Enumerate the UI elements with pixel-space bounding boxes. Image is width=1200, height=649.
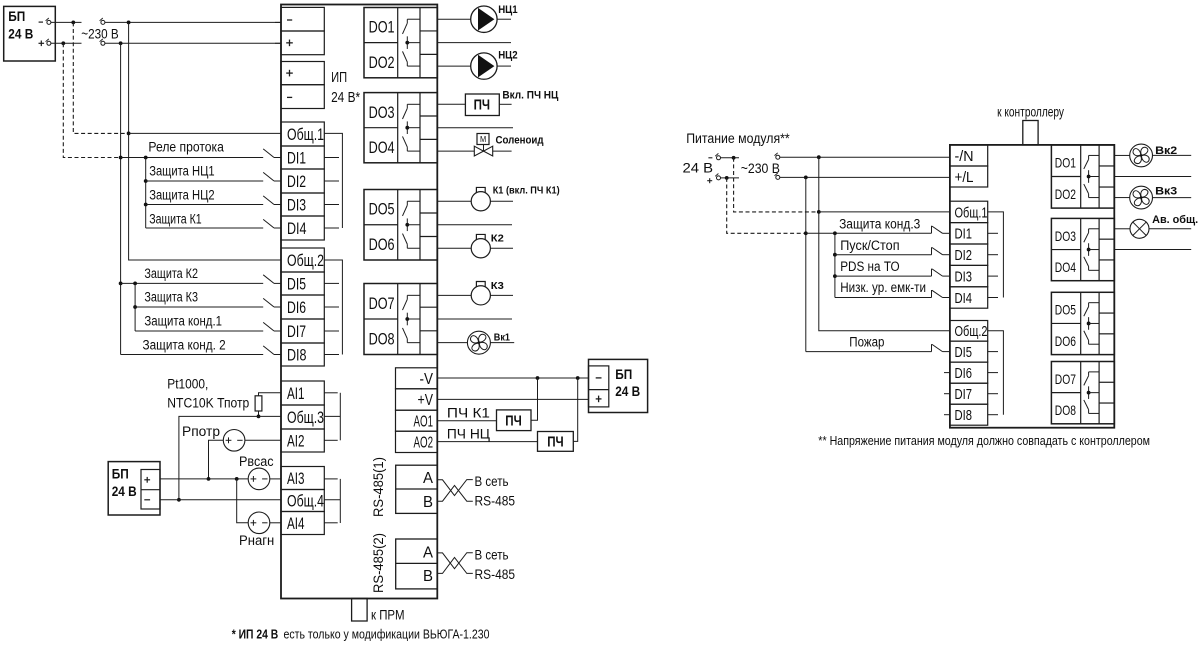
twisted pair RS-485(1) wire B bbox=[437, 485, 473, 501]
svg-text:Pt1000,: Pt1000, bbox=[167, 377, 208, 392]
svg-text:Защита К1: Защита К1 bbox=[149, 212, 202, 227]
svg-text:DI6: DI6 bbox=[955, 366, 973, 382]
junction dot DI3 bbox=[144, 203, 148, 207]
svg-text:DI1: DI1 bbox=[287, 149, 306, 168]
wire DO5 to contactor K1 bbox=[437, 200, 471, 202]
svg-text:Общ.2: Общ.2 bbox=[955, 324, 988, 340]
svg-text:к ПРМ: к ПРМ bbox=[371, 608, 405, 623]
svg-text:DO7: DO7 bbox=[1055, 371, 1076, 387]
svg-text:DO5: DO5 bbox=[1055, 302, 1076, 318]
svg-text:DI1: DI1 bbox=[955, 227, 973, 243]
contactor coil K3 bbox=[471, 286, 490, 305]
svg-text:к контроллеру: к контроллеру bbox=[997, 104, 1064, 119]
wire PCh K1 to -V bbox=[531, 378, 538, 420]
terminal DI5 right bbox=[950, 341, 988, 362]
frequency drive box PCh top bbox=[465, 94, 499, 116]
relay block DO7-DO8 box bbox=[364, 284, 437, 355]
svg-text:DO1: DO1 bbox=[369, 19, 395, 37]
switch contact DI2 right bbox=[931, 247, 933, 255]
wire 230V L to controller plus terminal bbox=[105, 42, 281, 44]
switch contact DI1 right bbox=[931, 226, 933, 234]
junction dot L right bbox=[804, 176, 808, 180]
pressure sensor Rpotr bbox=[223, 430, 245, 452]
svg-text:A: A bbox=[423, 470, 434, 487]
wire DO5-DO6 common bbox=[437, 224, 512, 226]
BP1 minus sign bbox=[39, 21, 43, 23]
terminal DI4 bbox=[281, 216, 324, 240]
pressure sensor Rnagn bbox=[248, 512, 270, 534]
svg-text:DO4: DO4 bbox=[369, 139, 395, 157]
svg-text:Рпотр: Рпотр bbox=[182, 424, 220, 439]
svg-text:БП: БП bbox=[615, 367, 632, 382]
RS-485(2) terminal block bbox=[396, 539, 438, 589]
vertical bus L to DI1 DI5 right bbox=[805, 177, 807, 351]
svg-text:* ИП 24 В: * ИП 24 В bbox=[232, 627, 279, 641]
svg-text:ПЧ: ПЧ bbox=[505, 414, 522, 430]
power supply BP3 24V box bbox=[589, 359, 648, 412]
svg-text:Вк1: Вк1 bbox=[494, 331, 510, 343]
alarm lamp Av obshch bbox=[1130, 219, 1149, 238]
svg-text:Питание модуля**: Питание модуля** bbox=[686, 131, 790, 146]
svg-text:ПЧ НЦ: ПЧ НЦ bbox=[447, 426, 490, 441]
twisted pair RS-485(1) wire A bbox=[437, 480, 473, 496]
wire Rnagn to AI4 bbox=[270, 522, 281, 524]
inner bracket Obshch.1-DI4 right bbox=[988, 212, 1004, 298]
svg-text:М: М bbox=[480, 134, 486, 144]
24V minus sign right bbox=[708, 157, 712, 159]
junction dot DI2-DI4 bus start bbox=[144, 156, 148, 160]
svg-text:RS-485: RS-485 bbox=[475, 567, 516, 582]
svg-text:DI8: DI8 bbox=[955, 408, 973, 424]
svg-text:В сеть: В сеть bbox=[475, 474, 509, 489]
wire DI4 Zashchita K1 bbox=[146, 227, 264, 229]
24V minus terminal circle right bbox=[717, 156, 721, 160]
24V plus sign right bbox=[707, 180, 712, 182]
wire DO2 to pump NC2 bbox=[437, 65, 470, 67]
wire DO7 to contactor K3 bbox=[437, 294, 471, 296]
wire DI1 Rele protoka bbox=[121, 157, 264, 159]
svg-text:К1 (вкл. ПЧ К1): К1 (вкл. ПЧ К1) bbox=[493, 184, 560, 196]
switch contact DI4 bbox=[263, 219, 274, 228]
switch contact DI5 right bbox=[931, 344, 933, 352]
svg-text:БП: БП bbox=[112, 466, 129, 481]
junction dot minus wire bbox=[177, 498, 181, 502]
junction dot DI2 right bbox=[833, 253, 837, 257]
BP1 plus terminal circle bbox=[47, 41, 51, 45]
terminal Obshch.1 right bbox=[950, 201, 988, 222]
wire resistor to Obshch.3 bbox=[258, 411, 260, 416]
switch contact DI1 bbox=[263, 149, 274, 158]
svg-text:NTC10K Тпотр: NTC10K Тпотр bbox=[167, 396, 249, 411]
junction dot 24V minus bbox=[732, 156, 736, 160]
svg-text:есть только у модификации ВЬЮГ: есть только у модификации ВЬЮГА-1.230 bbox=[284, 627, 490, 641]
terminal Obshch.1 bbox=[281, 122, 324, 146]
terminal DI2 bbox=[281, 169, 324, 193]
relay contacts DO7/DO8 right bbox=[1089, 371, 1100, 373]
svg-text:AI3: AI3 bbox=[287, 469, 305, 488]
wire PCh box right bbox=[499, 103, 511, 105]
k PRM stub box bbox=[352, 599, 368, 622]
relay contacts DO3/DO4 right bbox=[1089, 228, 1100, 230]
svg-text:Ав. общ.: Ав. общ. bbox=[1152, 214, 1198, 226]
terminal AO2 bbox=[396, 431, 438, 452]
twisted pair RS-485(2) wire B bbox=[437, 558, 473, 574]
svg-text:DO6: DO6 bbox=[369, 236, 395, 254]
wire Obshch.1 into terminal bbox=[129, 132, 281, 134]
svg-text:DO2: DO2 bbox=[369, 54, 395, 72]
wire minus BP2 to Obshch.4 bbox=[160, 499, 281, 501]
svg-text:Защита конд. 2: Защита конд. 2 bbox=[143, 337, 226, 352]
wire DO1 to pump NC1 bbox=[437, 18, 470, 20]
fan Vk2 bbox=[1130, 144, 1153, 167]
BP2 terminal cells bbox=[141, 470, 160, 510]
svg-text:DI3: DI3 bbox=[287, 196, 306, 215]
wire DO7-DO8 common bbox=[437, 318, 512, 320]
twisted pair RS-485(2) wire A bbox=[437, 553, 473, 569]
wire pump NC1 right bbox=[497, 18, 511, 20]
svg-text:Вкл. ПЧ НЦ: Вкл. ПЧ НЦ bbox=[502, 90, 558, 102]
svg-text:ИП: ИП bbox=[331, 69, 347, 86]
inner bracket group AI3-AI4 bbox=[324, 499, 340, 501]
terminal DI1 bbox=[281, 146, 324, 169]
BP1 plus sign bbox=[39, 42, 45, 44]
BP2 minus sign bbox=[144, 499, 150, 501]
wire 230V N to controller minus terminal bbox=[105, 21, 281, 23]
svg-text:A: A bbox=[423, 544, 434, 561]
svg-text:AI1: AI1 bbox=[287, 384, 305, 403]
wire Vk3 right bbox=[1153, 197, 1192, 199]
svg-text:Рнагн: Рнагн bbox=[239, 533, 274, 548]
svg-text:PDS на ТО: PDS на ТО bbox=[840, 259, 899, 274]
terminal DI3 bbox=[281, 193, 324, 216]
svg-text:DI6: DI6 bbox=[287, 298, 306, 317]
relay block DO1-DO2 right box bbox=[1051, 145, 1114, 208]
wire DO3-DO4 common bbox=[437, 127, 513, 129]
junction dot DI2 bbox=[144, 179, 148, 183]
frequency drive box PCh NC bbox=[538, 432, 574, 452]
inner bracket group Obshch.2-DI8 bbox=[324, 260, 342, 355]
terminal DI1 right bbox=[950, 223, 988, 244]
terminal Obshch.2 bbox=[281, 248, 324, 272]
svg-text:RS-485(2): RS-485(2) bbox=[371, 533, 386, 593]
svg-text:Защита К2: Защита К2 bbox=[144, 266, 198, 281]
dashed alternative wire BP1 plus to DI bus bbox=[63, 43, 118, 157]
relay contacts DO3/DO4 bbox=[407, 103, 420, 105]
svg-text:DI5: DI5 bbox=[287, 275, 306, 294]
controller main block outline bbox=[281, 5, 437, 599]
terminal DI6 bbox=[281, 295, 324, 319]
svg-text:** Напряжение питания модуля д: ** Напряжение питания модуля должно совп… bbox=[818, 434, 1150, 448]
relay block DO7-DO8 right box bbox=[1051, 362, 1114, 424]
svg-text:AO2: AO2 bbox=[414, 434, 434, 451]
terminal DI2 right bbox=[950, 244, 988, 265]
wire DO8 to fan Vk1 bbox=[437, 342, 467, 344]
switch contact DI3 bbox=[263, 196, 274, 205]
svg-text:ПЧ К1: ПЧ К1 bbox=[447, 405, 490, 420]
svg-text:Общ.3: Общ.3 bbox=[287, 408, 324, 427]
wire DO2 right to fan Vk3 bbox=[1114, 197, 1129, 199]
svg-text:~230 В: ~230 В bbox=[741, 161, 780, 176]
junction dot plus dashed tap bbox=[61, 41, 65, 45]
svg-text:Пуск/Стоп: Пуск/Стоп bbox=[840, 238, 899, 253]
terminal AI4 bbox=[281, 512, 324, 535]
svg-text:DI4: DI4 bbox=[287, 219, 307, 238]
switch contact DI4 right bbox=[931, 290, 933, 298]
svg-text:24 В: 24 В bbox=[683, 161, 714, 176]
svg-text:DO3: DO3 bbox=[369, 104, 395, 122]
bus DI2-DI4 bbox=[145, 158, 147, 229]
terminal DI8 bbox=[281, 343, 324, 366]
svg-text:Общ.1: Общ.1 bbox=[955, 205, 988, 221]
relay block DO5-DO6 box bbox=[364, 190, 437, 261]
wire -V to BP3 bbox=[437, 377, 588, 379]
junction dot minus dashed tap bbox=[71, 21, 75, 25]
terminal minus 230V bbox=[281, 7, 324, 31]
BP3 terminal cells bbox=[589, 366, 609, 407]
bus DI2-DI4 right bbox=[834, 233, 836, 297]
resistor Tpotr bbox=[255, 396, 262, 411]
wire DO1-DO2 common bbox=[437, 42, 511, 44]
wire BP1 plus to junction bbox=[51, 42, 82, 44]
contactor coil K2 bbox=[471, 239, 490, 258]
svg-text:24 В*: 24 В* bbox=[331, 89, 360, 106]
wire DI2 Pusk/Stop bbox=[835, 254, 932, 256]
wire DI5 Pozhar bbox=[806, 351, 932, 353]
svg-text:-V: -V bbox=[420, 371, 434, 388]
junction dot N vertical bbox=[127, 21, 131, 25]
svg-text:DI4: DI4 bbox=[955, 291, 973, 307]
switch contact DI8 bbox=[263, 346, 274, 355]
wire DI5 Zashchita K2 bbox=[121, 282, 264, 284]
terminal -/N bbox=[950, 145, 988, 166]
junction dot Obshch.3 bbox=[257, 415, 261, 419]
RS-485(1) terminal block bbox=[396, 465, 438, 513]
wire K2 right bbox=[490, 247, 513, 249]
svg-text:DO2: DO2 bbox=[1055, 186, 1076, 202]
wire K3 right bbox=[490, 294, 513, 296]
wire +V to BP3 bbox=[437, 398, 588, 400]
wire plus bus BP2 to Rvsas bbox=[160, 478, 248, 480]
svg-text:Пожар: Пожар bbox=[849, 335, 884, 350]
svg-text:DO4: DO4 bbox=[1055, 259, 1076, 275]
mains 230V plus terminal circle bbox=[101, 41, 105, 45]
terminal Obshch.3 bbox=[281, 405, 324, 429]
svg-text:DI3: DI3 bbox=[955, 270, 973, 286]
wire lamp right bbox=[1149, 228, 1191, 230]
switch contact DI7 bbox=[263, 322, 274, 331]
wire 24V plus right bbox=[721, 177, 740, 179]
svg-text:DO5: DO5 bbox=[369, 201, 395, 219]
svg-text:~230 В: ~230 В bbox=[81, 26, 118, 41]
wire AO1 to PCh K1 box bbox=[437, 420, 496, 422]
relay contacts DO1/DO2 bbox=[407, 18, 420, 20]
svg-text:Общ.2: Общ.2 bbox=[287, 251, 324, 270]
wire Obshch.3 left branch bbox=[179, 416, 281, 499]
wire Vk1 right bbox=[490, 342, 514, 344]
terminal AI1 bbox=[281, 381, 324, 405]
wire Rpotr to AI2 bbox=[245, 439, 281, 441]
terminal DI7 bbox=[281, 319, 324, 343]
BP3 minus sign bbox=[596, 377, 602, 379]
svg-text:Общ.4: Общ.4 bbox=[287, 492, 324, 511]
wire DO6 to contactor K2 bbox=[437, 247, 471, 249]
relay block DO3-DO4 right box bbox=[1051, 218, 1114, 280]
inner bracket group Obshch.1-DI4 bbox=[324, 133, 342, 228]
pressure sensor Rvsas bbox=[248, 468, 270, 490]
terminal IP minus bbox=[281, 85, 324, 109]
svg-text:DO1: DO1 bbox=[1055, 155, 1076, 171]
wire DO4 to solenoid bbox=[437, 150, 474, 152]
dashed alternative wire BP1 minus to Obshch.1 bbox=[73, 22, 126, 133]
terminal plus 230V bbox=[281, 31, 324, 55]
vertical bus L to DI1 DI5 DI8 bbox=[120, 43, 122, 354]
svg-text:-/N: -/N bbox=[955, 149, 974, 165]
svg-text:Вк3: Вк3 bbox=[1155, 185, 1177, 197]
junction dot Rnagn tap bbox=[235, 477, 239, 481]
svg-text:Защита К3: Защита К3 bbox=[144, 290, 198, 305]
terminal IP plus bbox=[281, 62, 324, 85]
svg-text:НЦ2: НЦ2 bbox=[498, 50, 517, 62]
solenoid valve body bbox=[474, 146, 483, 156]
wire PCh NC to -V bbox=[573, 378, 577, 441]
wire DI8 Zashchita kond.2 bbox=[121, 354, 264, 356]
svg-text:24 В: 24 В bbox=[615, 384, 640, 399]
terminal Obshch.2 right bbox=[950, 321, 988, 342]
junction dot Rpotr tap bbox=[207, 477, 211, 481]
wire DO1 right to fan Vk2 bbox=[1114, 154, 1129, 156]
svg-text:AI4: AI4 bbox=[287, 514, 305, 533]
k kontrolleru stub box bbox=[1023, 121, 1038, 145]
svg-text:Защита конд.1: Защита конд.1 bbox=[144, 314, 222, 329]
svg-text:ПЧ: ПЧ bbox=[474, 98, 491, 114]
left stub DI8 right module bbox=[944, 414, 950, 416]
inner bracket group AI1-AI2 bbox=[324, 415, 340, 417]
svg-text:Низк. ур. емк-ти: Низк. ур. емк-ти bbox=[840, 280, 926, 295]
wire DI4 Nizk ur emk-ti bbox=[835, 297, 932, 299]
wire AO2 to PCh NC box bbox=[437, 441, 537, 443]
svg-text:+V: +V bbox=[418, 392, 434, 409]
terminal -V bbox=[396, 368, 438, 389]
BP1 minus terminal circle bbox=[47, 20, 51, 24]
junction dot L vertical bbox=[119, 41, 123, 45]
svg-text:24 В: 24 В bbox=[112, 484, 137, 499]
left stub DI7 right module bbox=[944, 393, 950, 395]
vertical wire N to Obshch.1 Obshch.2 right bbox=[819, 157, 950, 331]
24V plus terminal circle right bbox=[717, 176, 721, 180]
relay contacts DO1/DO2 right bbox=[1089, 154, 1100, 156]
terminal Obshch.4 bbox=[281, 490, 324, 512]
junction dot 24V plus bbox=[725, 176, 729, 180]
wire DI3 PDS na TO bbox=[835, 275, 932, 277]
wire 24V minus right bbox=[721, 157, 740, 159]
terminal DI4 right bbox=[950, 287, 988, 308]
wire tap down to Rnagn bbox=[237, 479, 249, 523]
wire DI2 Zashchita NC1 bbox=[146, 180, 264, 182]
switch contact DI2 bbox=[263, 172, 274, 181]
svg-text:DO6: DO6 bbox=[1055, 333, 1076, 349]
wire Rvsas to AI3 bbox=[270, 478, 281, 480]
wire N to module bbox=[780, 156, 950, 158]
junction dot DI6-DI7 bus start bbox=[133, 282, 137, 286]
pump NC2 bbox=[471, 53, 497, 79]
svg-text:Защита конд.3: Защита конд.3 bbox=[839, 216, 920, 231]
svg-text:Защита НЦ2: Защита НЦ2 bbox=[149, 188, 214, 203]
terminal DI6 right bbox=[950, 362, 988, 383]
power supply BP1 24V box bbox=[4, 6, 56, 61]
svg-text:Защита НЦ1: Защита НЦ1 bbox=[149, 164, 214, 179]
relay contacts DO7/DO8 bbox=[407, 294, 420, 296]
BP2 plus sign bbox=[144, 479, 150, 481]
terminal AI3 bbox=[281, 467, 324, 490]
left stub terminal plus bbox=[275, 42, 281, 44]
vertical wire N to Obshch.1 and Obshch.2 bbox=[129, 22, 281, 260]
wire Rpotr to plus bus bbox=[209, 440, 224, 479]
wire DO1-DO2 common right bbox=[1114, 176, 1191, 178]
svg-text:DI2: DI2 bbox=[287, 172, 306, 191]
junction dot N right bbox=[817, 155, 821, 159]
frequency drive box PCh K1 bbox=[497, 410, 532, 431]
switch contact DI3 right bbox=[931, 269, 933, 277]
mains L terminal circle right bbox=[776, 175, 780, 179]
svg-text:DI8: DI8 bbox=[287, 346, 307, 365]
left stub DI6 right module bbox=[944, 372, 950, 374]
BP3 plus sign bbox=[596, 398, 602, 400]
junction dot at Obshch.1 bbox=[127, 132, 131, 136]
wire solenoid right bbox=[493, 150, 512, 152]
fan Vk3 bbox=[1130, 186, 1153, 209]
wire Vk2 right bbox=[1153, 154, 1192, 156]
junction dot PCh2 return bbox=[576, 376, 580, 380]
dashed wire 24V plus to DI1 right bbox=[727, 178, 804, 233]
pump NC1 bbox=[471, 6, 497, 32]
wire K1 right bbox=[490, 200, 513, 202]
svg-text:Общ.1: Общ.1 bbox=[287, 125, 324, 144]
svg-text:DO3: DO3 bbox=[1055, 228, 1076, 244]
terminal AO1 bbox=[396, 410, 438, 431]
wire Obshch.1 right into terminal bbox=[819, 211, 950, 213]
terminal DI7 right bbox=[950, 383, 988, 404]
relay block DO5-DO6 right box bbox=[1051, 292, 1114, 354]
wire pump NC2 right bbox=[497, 65, 511, 67]
svg-text:DI7: DI7 bbox=[287, 322, 306, 341]
solenoid valve M box bbox=[477, 134, 489, 145]
svg-text:DO7: DO7 bbox=[369, 295, 395, 313]
svg-text:DO8: DO8 bbox=[1055, 402, 1076, 418]
wire DI6 Zashchita K3 bbox=[135, 306, 263, 308]
svg-text:Реле протока: Реле протока bbox=[148, 140, 224, 155]
svg-text:ПЧ: ПЧ bbox=[547, 435, 564, 451]
wire DO3 right to lamp bbox=[1114, 228, 1130, 230]
svg-text:НЦ1: НЦ1 bbox=[498, 4, 517, 16]
svg-text:AO1: AO1 bbox=[414, 413, 434, 430]
wire DI3 Zashchita NC2 bbox=[146, 204, 264, 206]
svg-text:B: B bbox=[423, 568, 433, 585]
junction dot DI1 right bus bbox=[804, 231, 808, 235]
svg-text:Вк2: Вк2 bbox=[1155, 145, 1177, 157]
svg-text:БП: БП bbox=[8, 9, 25, 24]
mains 230V minus terminal circle bbox=[101, 20, 105, 24]
junction dot DI2-DI4 bus right bbox=[833, 231, 837, 235]
terminal DI8 right bbox=[950, 404, 988, 425]
junction dot Obshch.1 right bbox=[817, 210, 821, 214]
mains N terminal circle right bbox=[776, 155, 780, 159]
svg-text:К3: К3 bbox=[491, 280, 504, 292]
wire BP1 minus to junction bbox=[51, 21, 82, 23]
relay block DO1-DO2 box bbox=[364, 8, 437, 78]
svg-text:DI7: DI7 bbox=[955, 387, 973, 403]
wire DI7 Zashchita kond.1 bbox=[135, 330, 263, 332]
wire L to module bbox=[780, 176, 950, 178]
